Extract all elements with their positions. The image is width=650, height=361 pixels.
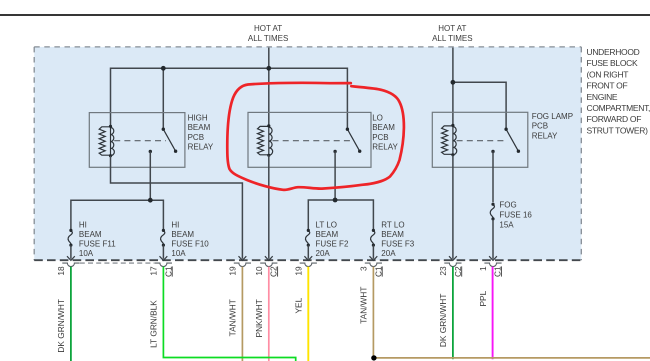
svg-text:LO: LO [372, 113, 383, 122]
wire: LT GRN/BLK pin 17 [163, 267, 295, 361]
junction: fog feed [451, 80, 456, 85]
svg-text:ALL TIMES: ALL TIMES [248, 34, 288, 43]
svg-text:RELAY: RELAY [188, 143, 214, 152]
wire: fog lamp switch output to fuse 16 [492, 152, 494, 203]
svg-text:HOT AT: HOT AT [254, 24, 282, 33]
svg-text:20A: 20A [316, 249, 331, 258]
wire: fuse 16 to pin 1 [492, 220, 494, 259]
wire: TAN/WHT pin 3 [372, 267, 374, 358]
fuse F10 [161, 229, 165, 247]
wire: fog lamp coil return to pin 23 [452, 155, 454, 259]
wire: DK GRN/WHT pin 23 [452, 267, 454, 360]
svg-text:10A: 10A [79, 249, 94, 258]
wire: feed bus to high beam coil and lo beam switch [111, 68, 348, 129]
relay U2 switch [333, 128, 361, 154]
relay U1 coil [99, 125, 114, 158]
svg-text:20A: 20A [381, 249, 396, 258]
wire: fuse F10 to pin 17 [162, 245, 164, 258]
svg-text:FUSE F2: FUSE F2 [316, 240, 349, 249]
svg-text:YEL: YEL [294, 297, 304, 313]
svg-text:10: 10 [254, 266, 264, 276]
svg-text:FUSE F10: FUSE F10 [171, 240, 209, 249]
svg-text:19: 19 [228, 266, 238, 276]
wire: YEL pin 19 [307, 267, 309, 361]
wire: left hot feed down to lo beam coil [268, 48, 270, 126]
svg-text:FRONT OF: FRONT OF [587, 81, 628, 91]
svg-text:BEAM: BEAM [79, 230, 102, 239]
svg-text:COMPARTMENT,: COMPARTMENT, [587, 103, 650, 113]
svg-text:BEAM: BEAM [188, 123, 211, 132]
svg-text:FOG: FOG [499, 201, 516, 210]
relay U2 coil [258, 124, 273, 157]
relay U1 box: HIGH BEAM PCB RELAY [89, 113, 185, 168]
svg-text:1: 1 [478, 266, 488, 271]
svg-text:23: 23 [438, 266, 448, 276]
wire: TAN/WHT horizontal run [373, 357, 650, 359]
svg-text:FUSE 16: FUSE 16 [499, 211, 532, 220]
svg-text:BEAM: BEAM [381, 230, 404, 239]
svg-text:ALL TIMES: ALL TIMES [432, 34, 472, 43]
svg-text:HOT AT: HOT AT [438, 24, 466, 33]
svg-text:(ON RIGHT: (ON RIGHT [587, 69, 629, 79]
relay U2 box: LO BEAM PCB RELAY [248, 112, 371, 167]
top rule [0, 14, 650, 16]
svg-text:PNK/WHT: PNK/WHT [254, 299, 264, 337]
wire: fuse F3 to pin 3 [372, 245, 374, 258]
wire: high beam switch output [149, 152, 151, 201]
svg-text:FUSE BLOCK: FUSE BLOCK [587, 58, 638, 68]
wire: lo beam switch output [334, 152, 336, 201]
junction: lo beam output [333, 198, 338, 203]
fuse F3 [371, 229, 375, 247]
wire: high beam coil return to pin 19 [111, 156, 243, 259]
relay U1 armature dashed link [114, 140, 166, 142]
fuse F11 [68, 229, 72, 247]
wire: drop to high beam switch [162, 68, 164, 129]
svg-text:TAN/WHT: TAN/WHT [228, 299, 238, 336]
junction: tan wire splice [371, 355, 376, 360]
wire: output bus to fuses F2 and F3 [308, 200, 373, 229]
svg-text:3: 3 [359, 266, 369, 271]
svg-text:HIGH: HIGH [188, 113, 208, 122]
connector cups [62, 263, 79, 267]
connector arrows at fuse block edge [67, 256, 75, 260]
svg-text:UNDERHOOD: UNDERHOOD [587, 47, 640, 57]
relay U1 switch [149, 128, 178, 154]
svg-text:LT GRN/BLK: LT GRN/BLK [149, 300, 159, 348]
wire: branch to fog lamp switch [453, 82, 506, 129]
svg-text:BEAM: BEAM [316, 230, 339, 239]
svg-text:LT LO: LT LO [316, 220, 338, 229]
svg-text:FUSE F11: FUSE F11 [79, 240, 116, 249]
svg-text:18: 18 [56, 266, 66, 276]
svg-text:PCB: PCB [372, 133, 388, 142]
svg-text:RELAY: RELAY [532, 131, 558, 140]
wire: output bus to fuses F11 and F10 [71, 200, 163, 229]
fuse 16 [490, 203, 494, 221]
connector strip dashes between pins 18 and 17 [80, 262, 155, 264]
svg-text:FOG LAMP: FOG LAMP [532, 112, 573, 121]
svg-text:DK GRN/WHT: DK GRN/WHT [56, 299, 66, 352]
svg-text:BEAM: BEAM [171, 230, 194, 239]
svg-text:DK GRN/WHT: DK GRN/WHT [438, 294, 448, 347]
junction: feed/lo-beam-coil [266, 66, 271, 71]
svg-text:19: 19 [294, 266, 304, 276]
svg-text:RT LO: RT LO [381, 220, 404, 229]
relay U2 armature dashed link [273, 140, 351, 142]
wire: right hot feed down to fog lamp coil [452, 48, 454, 126]
wire: PNK/WHT pin 10 [268, 267, 270, 361]
red annotation circle around LO BEAM relay [227, 83, 404, 190]
svg-text:HI: HI [171, 220, 179, 229]
svg-text:PCB: PCB [188, 133, 204, 142]
svg-text:PPL: PPL [478, 290, 488, 306]
svg-text:15A: 15A [499, 220, 514, 229]
svg-text:17: 17 [149, 266, 159, 276]
relay U3 box: FOG LAMP PCB RELAY [432, 112, 528, 167]
fuse F2 [306, 229, 310, 247]
relay U3 coil [442, 124, 457, 157]
svg-text:10A: 10A [171, 249, 186, 258]
underhood fuse block (dashed box) [34, 47, 581, 260]
svg-text:STRUT TOWER): STRUT TOWER) [587, 125, 649, 135]
svg-text:FORWARD OF: FORWARD OF [587, 114, 642, 124]
junction: high beam output [148, 198, 153, 203]
svg-text:PCB: PCB [532, 122, 548, 131]
svg-text:BEAM: BEAM [372, 123, 395, 132]
wire: fuse F11 to pin 18 [70, 245, 72, 258]
svg-text:FUSE F3: FUSE F3 [381, 240, 414, 249]
wire: lo beam coil return to pin 10 [268, 155, 270, 258]
relay U3 switch [491, 128, 520, 154]
svg-text:ENGINE: ENGINE [587, 92, 618, 102]
wire: TAN/WHT pin 19 [241, 267, 243, 361]
wire: DK GRN/WHT pin 18 [70, 267, 72, 361]
relay U3 armature dashed link [457, 140, 505, 142]
wire: PPL pin 1 [492, 267, 494, 360]
wire: fuse F2 to pin 19 [307, 245, 309, 258]
svg-text:HI: HI [79, 220, 87, 229]
svg-text:RELAY: RELAY [372, 143, 398, 152]
svg-text:TAN/WHT: TAN/WHT [359, 287, 369, 324]
junction: feed/high-beam-switch [161, 66, 166, 71]
